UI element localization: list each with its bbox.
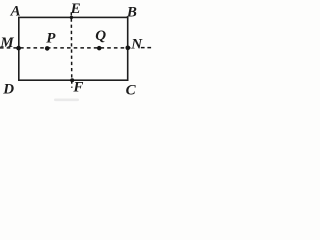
- point E: [70, 16, 73, 19]
- svg-text:C: C: [126, 83, 137, 99]
- svg-text:P: P: [46, 31, 56, 47]
- svg-text:B: B: [126, 5, 137, 21]
- svg-text:A: A: [10, 4, 21, 20]
- svg-text:Q: Q: [95, 28, 106, 44]
- horizontal dashed line left segment through M P Q: [0, 47, 131, 49]
- svg-text:E: E: [70, 1, 81, 17]
- point N: [125, 45, 130, 50]
- horizontal dashed line right segment after N: [141, 47, 151, 49]
- svg-text:N: N: [130, 37, 143, 53]
- vertical dashed line through E F: [70, 12, 73, 88]
- svg-text:D: D: [2, 82, 14, 98]
- svg-text:M: M: [0, 35, 14, 51]
- point F: [70, 78, 74, 82]
- point P: [45, 46, 50, 51]
- rectangle ABCD: [19, 17, 128, 80]
- faint scan smudge at bottom: [54, 99, 79, 102]
- svg-text:F: F: [72, 80, 83, 96]
- point Q: [97, 46, 102, 51]
- point M: [16, 46, 21, 51]
